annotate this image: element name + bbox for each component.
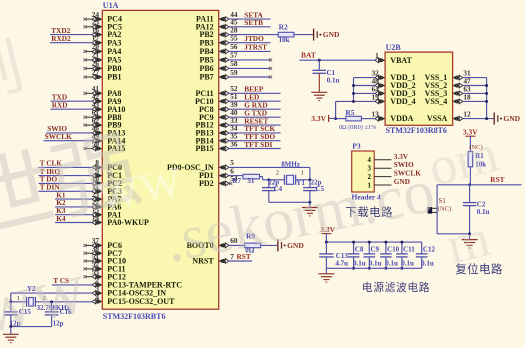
wire and net label T_CS [52, 276, 93, 285]
crystal Y2 [27, 297, 36, 307]
U2B pin 1 (VBAT) [375, 51, 413, 65]
U1A pin 59 (PB7) [199, 68, 237, 82]
svg-text:PD2: PD2 [199, 179, 214, 188]
U1A pin 24 (PC4) [83, 10, 122, 24]
junction VDD_2 [352, 84, 355, 87]
Y2 pin 2 number [43, 295, 46, 302]
svg-text:STM32F103R8T6: STM32F103R8T6 [386, 126, 447, 135]
junction at ground rail [308, 201, 311, 204]
Y2 reference designator [27, 285, 36, 293]
U1A pin 33 (PB12) [195, 116, 237, 130]
ground symbol (crystal Y1) [302, 202, 318, 216]
svg-text:C10: C10 [387, 246, 400, 254]
wire VSS_3 to bus [462, 92, 486, 94]
wire VDD_2 to bus [354, 85, 376, 87]
svg-text:0.1u: 0.1u [401, 260, 414, 268]
junction filter top C13 [325, 241, 328, 244]
capacitor C1 [313, 60, 340, 84]
power port GND (PB2 pulldown) [314, 29, 340, 41]
svg-text:0.1u: 0.1u [353, 260, 366, 268]
power port 3.3V (filter) [320, 225, 335, 242]
U1A pin 43 (PA10) [92, 100, 126, 114]
capacitor C5 [303, 178, 325, 202]
wire and net label SETA [229, 10, 271, 19]
junction C9 bottom [368, 267, 371, 270]
filter top rail wire [326, 241, 421, 243]
wire VDD_1 to bus [354, 77, 376, 79]
wire Y2 ground rail [11, 326, 52, 328]
svg-text:C12: C12 [423, 246, 436, 254]
wire node 2 to crystal Y1 [269, 179, 285, 181]
wire VSSA to GND [462, 118, 493, 120]
svg-text:PB15: PB15 [195, 144, 213, 153]
capacitor C8 [348, 242, 366, 268]
U1A pin 4 (PC15-OSC32_OUT) [92, 292, 175, 306]
ground symbol (crystal Y2) [3, 327, 19, 343]
U1A pin 39 (PC8) [199, 100, 238, 114]
unconnected wire on pin 59 [229, 75, 273, 78]
Y1 pin 2 number [276, 170, 279, 177]
wire and net label T_DIN [39, 183, 93, 192]
U1A pin 22 (PA6) [92, 198, 122, 212]
U2B pin 32 (VDD_1) [372, 69, 416, 83]
U1A pin 52 (PC11) [83, 260, 125, 274]
label (NC) on R1 [469, 144, 483, 151]
wire and net label RST [470, 175, 522, 185]
wire and net label SETB [229, 18, 271, 27]
capacitor C16 [45, 302, 72, 328]
wire and net label T_IRQ [39, 167, 93, 176]
svg-text:C9: C9 [371, 246, 380, 254]
U1A pin 11 (PC3) [92, 182, 122, 196]
U1A pin 44 (PA11) [196, 10, 238, 24]
svg-text:27: 27 [92, 68, 100, 77]
connector P3 body [352, 151, 375, 192]
capacitor C15 [4, 302, 31, 328]
svg-text:59: 59 [230, 68, 238, 77]
power port GND (VSSA) [494, 113, 520, 125]
resistor R1 [468, 152, 486, 169]
label 8MHz [281, 160, 300, 168]
resistor R9 [245, 232, 261, 255]
U1A pin 52 (PC11) [195, 84, 237, 98]
power port GND (BOOT0 pulldown) [278, 239, 304, 251]
svg-text:GND: GND [503, 114, 520, 123]
wire and net label RXD2 [50, 34, 93, 43]
wire PB2 to R2 [229, 34, 279, 36]
svg-text:C8: C8 [355, 246, 364, 254]
U2B pin 19 (VDD_4) [372, 92, 416, 106]
junction VSS_2 [485, 84, 488, 87]
svg-text:SETB: SETB [244, 18, 263, 27]
U1A pin 5 (PD0-OSC_IN) [167, 158, 234, 172]
U1A pin 38 (PC7) [83, 244, 122, 258]
capacitor C9 [364, 242, 382, 268]
svg-text:VDD_4: VDD_4 [390, 97, 415, 106]
IC U1A body (STM32F103RBT6) [102, 10, 218, 309]
U1A pin 20 (PA4) [83, 42, 121, 56]
wire and net label JTRST [229, 43, 271, 52]
junction C11 bottom [400, 267, 403, 270]
wire and net label TFT SDO [229, 132, 281, 141]
svg-text:13: 13 [372, 110, 380, 119]
U1A pin 40 (PC9) [199, 108, 238, 122]
junction C11 top [400, 241, 403, 244]
U1A pin 60 (BOOT0) [187, 236, 238, 250]
node 1 junction [308, 178, 311, 181]
U1A pin 36 (PB15) [195, 139, 237, 153]
svg-text:JTRST: JTRST [244, 43, 267, 52]
U1A pin 58 (PB6) [199, 59, 237, 73]
capacitor C2 [463, 185, 490, 234]
U1A pin 9 (PC1) [92, 166, 122, 180]
stub wire on PD2 [229, 182, 233, 185]
U1A pin 37 (PC6) [83, 236, 122, 250]
Y1 pin 1 number [301, 170, 304, 177]
U1A pin 26 (PB0) [83, 59, 121, 73]
wire RST node to switch branch [437, 184, 470, 186]
wire and net label RXD [51, 101, 93, 110]
wire and net label K4 [55, 214, 93, 223]
svg-text:VSS_4: VSS_4 [425, 97, 448, 106]
capacitor C13 [319, 242, 348, 268]
resistor R2 [278, 23, 294, 44]
wire R7 to crystal node 2 [260, 177, 269, 180]
filter bottom rail wire [326, 267, 421, 269]
wire VSS_4 to bus [462, 100, 486, 102]
svg-text:8MHz: 8MHz [281, 160, 300, 168]
title: download circuit [345, 205, 393, 219]
U1A pin 28 (PB2) [199, 25, 237, 39]
wire and net label G RXD [229, 101, 281, 110]
junction C9 top [368, 241, 371, 244]
P3 part name Header 4 [352, 193, 381, 202]
junction RST node [468, 183, 471, 186]
svg-text:RXD2: RXD2 [51, 34, 71, 43]
junction VSS_3 [485, 92, 488, 95]
Y1 reference designator [296, 179, 305, 187]
capacitor C12 [416, 242, 436, 268]
junction VDD_4 bus [352, 100, 355, 103]
svg-text:0.1u: 0.1u [385, 260, 398, 268]
U1A pin 8 (PC0) [92, 158, 122, 172]
svg-text:C13: C13 [336, 252, 349, 260]
wire reset ground rail [437, 233, 470, 235]
U2B pin 13 (VDDA) [372, 110, 414, 124]
svg-text:电源滤波电路: 电源滤波电路 [362, 280, 430, 294]
wire and net label JTDO [229, 34, 271, 43]
svg-text:PB7: PB7 [199, 73, 213, 82]
wire and net label SWIO [46, 124, 93, 133]
U1A part number STM32F103RBT6 [103, 312, 166, 321]
svg-text:12: 12 [463, 110, 471, 119]
junction C10 top [384, 241, 387, 244]
svg-text:17: 17 [92, 34, 100, 43]
junction C10 bottom [384, 267, 387, 270]
junction VSSA bus [485, 117, 488, 120]
wire R1 to RST node [469, 167, 472, 185]
U1A pin 14 (PA0-WKUP) [92, 213, 149, 227]
resistor R7 [232, 174, 259, 185]
wire and net label TFT SCK [229, 124, 281, 133]
wire and net label BAT to VBAT [299, 51, 375, 61]
svg-text:R5: R5 [345, 108, 354, 117]
svg-text:S1: S1 [439, 198, 446, 205]
net label GND on P3 pin 1 [394, 177, 410, 186]
svg-text:R2: R2 [279, 23, 288, 32]
wire crystal ground rail [269, 201, 310, 203]
U1A pin 10 (PC2) [92, 174, 122, 188]
svg-text:RXD: RXD [52, 101, 68, 110]
svg-text:P3: P3 [352, 141, 361, 150]
svg-text:JTDO: JTDO [244, 34, 264, 43]
U1A pin 21 (PA5) [83, 51, 121, 65]
svg-text:4.7u: 4.7u [335, 260, 348, 268]
wire Y2 pin1 row [11, 301, 27, 303]
wire and net label TXD [51, 93, 93, 102]
junction Y2 pin 1 [9, 300, 12, 303]
wire VDD_4 node down to R5 node [335, 101, 337, 118]
wire and net label RESET [229, 116, 281, 125]
wire PD0-OSC_IN to crystal node 1 [229, 167, 310, 179]
wire R9 to GND [261, 244, 278, 246]
U1A pin 53 (PC12) [83, 268, 126, 282]
crystal Y1 [285, 175, 296, 185]
U2B pin 47 (VSS_2) [425, 77, 471, 91]
svg-text:0.1u: 0.1u [421, 260, 434, 268]
node 2 junction [267, 178, 270, 181]
wire crystal Y1 to node 1 [296, 179, 310, 181]
U1A pin 49 (PA14) [92, 132, 126, 146]
U1A pin 50 (PA15) [83, 139, 125, 153]
junction VSS_4 [485, 100, 488, 103]
wire and net label TFT SDI [229, 140, 281, 149]
svg-text:51: 51 [248, 177, 256, 185]
svg-text:BAT: BAT [301, 51, 316, 60]
wire and net label T_CLK [39, 159, 93, 168]
title: power supply filter circuit [362, 280, 430, 294]
U1A pin 15 (PA1) [92, 206, 122, 220]
U1A pin 3 (PC14-OSC32_IN) [92, 284, 166, 298]
U1A pin 7 (NRST) [192, 252, 234, 266]
title: reset circuit [455, 262, 503, 276]
U1A pin 2 (PC13-TAMPER-RTC) [92, 276, 182, 290]
net label SWIO on P3 pin 3 [394, 160, 414, 169]
svg-text:U2B: U2B [386, 43, 402, 52]
wire and net label T_DO [39, 175, 93, 184]
svg-text:0Ω (0R0) ±1%: 0Ω (0R0) ±1% [339, 124, 377, 131]
svg-text:PA3: PA3 [107, 38, 121, 47]
junction at Y2 ground rail [9, 325, 12, 328]
U2B pin 64 (VDD_3) [372, 84, 416, 98]
IC U2B body (power pins) [385, 52, 453, 125]
wire node to R5 [336, 118, 346, 120]
wire and net label LED [229, 93, 281, 102]
wire VSS_2 to bus [462, 85, 486, 87]
junction VDD_3 [352, 92, 355, 95]
wire BOOT0 to R9 [229, 244, 245, 246]
U1A pin 46 (PA13) [92, 124, 126, 138]
wire PD1 to R7 [229, 175, 244, 177]
wire and net label K2 [55, 198, 93, 207]
U1A pin 55 (PB3) [199, 34, 237, 48]
U2B pin 63 (VSS_3) [425, 84, 471, 98]
net label 3.3V on P3 pin 4 [394, 152, 409, 161]
svg-text:1: 1 [301, 170, 304, 177]
U1A pin 51 (PC10) [195, 92, 238, 106]
svg-text:0.1u: 0.1u [369, 260, 382, 268]
power port 3.3V (reset) [463, 127, 478, 151]
U1A pin 42 (PA9) [92, 92, 122, 106]
svg-text:2: 2 [276, 170, 279, 177]
U1A pin 54 (PD2) [199, 174, 238, 188]
U2B pin 12 (VSSA) [427, 110, 471, 124]
U1A pin 41 (PA8) [83, 84, 121, 98]
U1A pin 6 (PD1) [199, 166, 234, 180]
svg-text:4: 4 [95, 292, 99, 301]
ground symbol (filter) [318, 268, 334, 282]
P3 pin 4 [368, 156, 392, 164]
P3 pin 2 [368, 173, 392, 181]
U1A pin 57 (PB5) [199, 51, 237, 65]
svg-text:U1A: U1A [103, 1, 119, 10]
wire R5 to VDDA [361, 118, 375, 120]
wire and net label RST at NRST [229, 252, 253, 261]
U1A pin 61 (PB8) [83, 108, 121, 122]
junction R5 node [334, 117, 337, 120]
wire and net label TXD2 [50, 26, 93, 35]
wire and net label SWCLK [44, 132, 93, 141]
wire and net label K3 [55, 206, 93, 215]
svg-text:(NC): (NC) [438, 206, 452, 213]
svg-text:STM32F103RBT6: STM32F103RBT6 [103, 312, 166, 321]
ground symbol (reset) [462, 234, 478, 248]
net label SWCLK on P3 pin 2 [394, 169, 421, 178]
svg-text:1: 1 [375, 51, 379, 60]
U1A pin 51 (PC10) [83, 252, 126, 266]
wire Y2 pin 2 to PC15-OSC32_OUT [35, 301, 92, 303]
U2B pin 18 (VSS_4) [425, 92, 471, 106]
Y2 pin 1 number [17, 295, 20, 302]
capacitor C4 [262, 178, 283, 202]
svg-text:10k: 10k [279, 36, 290, 44]
wire and net label G TXD [229, 109, 281, 118]
U1A pin 62 (PB9) [83, 116, 121, 130]
junction C1 tap [318, 59, 321, 62]
svg-text:TFT SDI: TFT SDI [244, 140, 272, 149]
U2B pin 48 (VDD_2) [372, 77, 416, 91]
svg-text:VSSA: VSSA [427, 114, 448, 123]
svg-text:VBAT: VBAT [390, 56, 412, 65]
wire and net label BEEP [229, 85, 281, 94]
wire VSS_1 to bus [462, 77, 486, 79]
unconnected wire on pin 58 [229, 67, 273, 70]
wire VDD_4 to R5 node [336, 100, 376, 102]
svg-text:0.1u: 0.1u [327, 76, 340, 84]
U1A reference designator [103, 1, 119, 10]
U2B pin 31 (VSS_1) [425, 69, 471, 83]
ground symbol (C1) [311, 73, 327, 100]
U1A pin 25 (PC5) [83, 18, 122, 32]
U1A pin 56 (PB4) [199, 42, 237, 56]
U1A pin 16 (PA2) [92, 25, 122, 39]
junction C8 bottom [352, 267, 355, 270]
P3 pin 1 [368, 181, 392, 189]
U1A pin 27 (PB1) [83, 68, 121, 82]
wire and net label K1 [55, 190, 93, 199]
svg-text:PB3: PB3 [199, 38, 213, 47]
power port 3.3V (R5) [311, 114, 335, 123]
label 32.768KHz [37, 304, 70, 312]
wire PC14-OSC32_IN to Y2 pin 1 [11, 293, 93, 302]
unconnected wire on pin 57 [229, 58, 273, 61]
svg-text:36: 36 [230, 139, 238, 148]
wire switch branch vertical [436, 185, 438, 234]
resistor R5 [339, 108, 377, 131]
U1A pin 34 (PB13) [195, 124, 237, 138]
P3 pin 3 [368, 165, 392, 173]
U1A pin 35 (PB14) [195, 132, 237, 146]
svg-text:GND: GND [323, 30, 340, 39]
VSS bus vertical wire [486, 78, 488, 119]
svg-text:PB1: PB1 [107, 73, 121, 82]
U2B part number STM32F103R8T6 [386, 126, 447, 135]
junction Y2 pin 2 [50, 300, 53, 303]
wire R2 to GND [294, 34, 313, 36]
svg-text:4: 4 [368, 156, 372, 164]
U2B reference designator [386, 43, 402, 52]
svg-text:R7: R7 [232, 177, 241, 185]
svg-text:VDDA: VDDA [390, 114, 413, 123]
P3 reference designator [352, 141, 361, 150]
pushbutton S1 [428, 198, 452, 214]
U1A pin 23 (PA7) [92, 190, 122, 204]
U1A pin 45 (PA12) [196, 18, 238, 32]
svg-text:PC15-OSC32_OUT: PC15-OSC32_OUT [107, 297, 175, 306]
svg-text:3.3V: 3.3V [311, 114, 326, 123]
svg-text:C11: C11 [403, 246, 415, 254]
junction C8 top [352, 241, 355, 244]
junction reset ground rail [468, 232, 471, 235]
capacitor C10 [380, 242, 400, 268]
VDD bus vertical wire [353, 78, 355, 102]
wire VDD_3 to bus [354, 92, 376, 94]
capacitor C11 [396, 242, 415, 268]
U1A pin 17 (PA3) [92, 34, 122, 48]
